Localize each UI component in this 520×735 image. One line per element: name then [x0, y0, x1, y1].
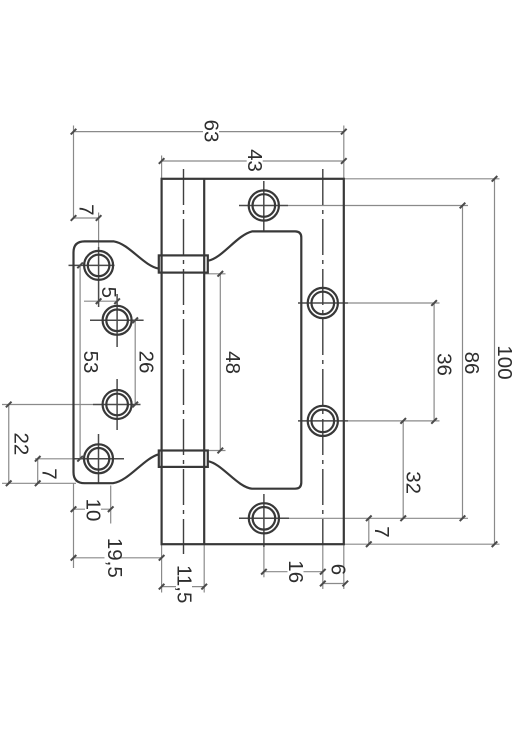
extension from R3 to right (for 36/32) — [348, 420, 440, 422]
extension from dim7 down to hole L1 — [98, 213, 100, 252]
dimension line 32 — [402, 421, 404, 518]
extension from hole L4 to left (for 7) — [35, 458, 74, 460]
dimension line 6 — [323, 583, 346, 585]
extension plate bottom edge to right (for 7 and 100) — [344, 543, 500, 545]
extension line left (for 63 and 7) — [73, 126, 75, 220]
ticks 11,5 — [159, 584, 165, 590]
svg-text:6: 6 — [326, 564, 349, 575]
hole R1 — [249, 190, 279, 220]
hole R3 crosshair — [298, 420, 348, 422]
dimension line 43 — [162, 160, 344, 162]
dimension line 26 — [134, 320, 136, 404]
svg-text:7: 7 — [370, 526, 393, 537]
hole R4 crosshair — [239, 517, 289, 519]
ticks 86 — [460, 203, 466, 209]
dimension line 10 — [74, 508, 111, 510]
hole L4 — [84, 444, 113, 473]
extension line barrel left (for 43) — [161, 156, 163, 179]
hole L3 — [103, 390, 132, 419]
extension plate top edge to right (for 100) — [344, 178, 500, 180]
extension barrel right edge below plate (for 11,5) — [203, 544, 205, 592]
dimension line 22 — [8, 405, 10, 484]
svg-text:53: 53 — [79, 351, 102, 374]
dimension line 7 bottom-right — [368, 518, 370, 544]
hole R4 — [249, 503, 279, 533]
screw column dash-dot centerline (right plate) — [322, 169, 324, 544]
svg-text:5: 5 — [97, 287, 120, 298]
ticks 48 — [218, 271, 224, 277]
extension for 48 bottom — [208, 450, 226, 452]
svg-text:86: 86 — [460, 352, 483, 375]
svg-text:32: 32 — [402, 471, 425, 494]
ticks 7 bottom-right — [366, 516, 372, 522]
hole R3 — [308, 406, 338, 436]
hole R1 crosshair — [239, 205, 288, 207]
ticks 5 — [96, 298, 102, 304]
ticks 43 — [159, 158, 165, 164]
extension plate right edge below (for 6) — [343, 544, 345, 589]
dimension line 48 — [219, 274, 221, 451]
lower knuckle band — [159, 451, 208, 467]
svg-text:63: 63 — [200, 120, 223, 143]
hole R2 — [308, 288, 338, 318]
ticks 19,5 — [71, 555, 77, 561]
barrel right edge — [203, 179, 205, 544]
svg-text:7: 7 — [38, 468, 61, 479]
hole L3 crosshair — [93, 404, 141, 406]
dimension line 11,5 — [162, 586, 205, 588]
dimension line 86 — [462, 206, 464, 519]
extension of leaf bottom edge to left — [2, 482, 76, 484]
extension from R2 to right (for 36) — [348, 302, 440, 304]
left leaf outline — [74, 241, 159, 483]
ticks 63 — [71, 129, 77, 135]
extension from R4 to right (for 7/32/86) — [289, 517, 468, 519]
hole L1 crosshair — [69, 264, 115, 266]
extension from hole L3 to far left (for 22) — [2, 404, 93, 406]
ticks 6 — [320, 581, 326, 587]
extension hole R4 column below plate (for 16) — [263, 547, 265, 577]
dimension line 5 — [84, 300, 118, 302]
hole L2 — [103, 306, 132, 335]
dimension line 53 — [79, 265, 81, 458]
extension left lower (for 10 and 19,5) — [73, 483, 75, 568]
upper knuckle band — [159, 255, 208, 272]
ticks 22 — [6, 402, 12, 408]
svg-text:16: 16 — [284, 560, 307, 583]
extension line plate right corner (for 63/43) — [343, 126, 345, 179]
ticks 16 — [261, 569, 267, 575]
svg-text:36: 36 — [433, 353, 456, 376]
hole L1 — [84, 251, 113, 280]
svg-text:19,5: 19,5 — [103, 538, 126, 578]
ticks 26 — [132, 318, 138, 324]
dimension line 63 — [74, 131, 344, 133]
dimension line 7 top-left — [74, 217, 99, 219]
ticks 36 — [431, 300, 437, 306]
hole L2 crosshair — [90, 319, 144, 321]
svg-text:48: 48 — [221, 351, 244, 374]
dimension line 100 — [494, 179, 496, 544]
ticks 7 top-left — [71, 215, 77, 221]
svg-text:26: 26 — [135, 351, 158, 374]
extension barrel left edge below plate (for 11,5) — [161, 544, 163, 592]
dimension line 19,5 — [74, 557, 162, 559]
ticks 10 — [71, 506, 77, 512]
svg-text:10: 10 — [82, 499, 105, 522]
svg-text:100: 100 — [493, 345, 516, 379]
extension screw column below plate (for 16/6) — [322, 544, 324, 589]
extension for 10 right end — [110, 486, 112, 524]
inner cutout outline — [208, 231, 301, 488]
svg-text:7: 7 — [74, 204, 97, 215]
hole L4 crosshair — [74, 458, 124, 460]
ticks 7 bottom-left — [35, 456, 41, 462]
ticks 100 — [492, 176, 498, 182]
barrel dash-dot centerline — [183, 169, 185, 554]
dimension line 16 — [264, 571, 323, 573]
svg-text:43: 43 — [243, 149, 266, 172]
ticks 32 — [400, 418, 406, 424]
dimension line 36 — [433, 303, 435, 421]
dimension line 7 bottom-left — [37, 459, 39, 484]
hole R2 crosshair — [298, 302, 348, 304]
svg-text:11,5: 11,5 — [173, 565, 196, 603]
extension for 48 top — [204, 273, 225, 275]
svg-text:22: 22 — [9, 432, 32, 455]
ticks 53 — [77, 263, 83, 269]
right plate outline — [162, 179, 344, 544]
extension from R1 to right (for 86) — [288, 205, 468, 207]
